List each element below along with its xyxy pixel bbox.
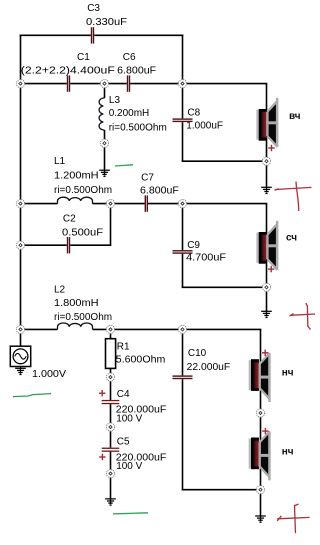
speaker nch upper	[249, 353, 271, 402]
node junction C4-C5	[106, 423, 114, 431]
wire C9 branch above	[182, 204, 184, 251]
svg-text:нч: нч	[282, 446, 294, 457]
capacitor C1	[67, 75, 70, 91]
svg-text:1.000V: 1.000V	[32, 369, 66, 380]
wire top rail right of C3	[94, 34, 183, 36]
wire sch speaker column	[266, 204, 268, 288]
wire sch bottom row	[182, 286, 267, 288]
capacitor C2	[67, 237, 70, 253]
node junction left rail row3	[16, 200, 24, 208]
wire row3 L1 to C7	[93, 203, 145, 205]
ground below C5	[105, 499, 116, 505]
node junction L3 top	[100, 80, 108, 88]
wire nch ground stem	[260, 490, 262, 516]
node junction C5 bottom	[106, 469, 114, 477]
node junction R1-C4	[106, 373, 114, 381]
node junction left rail row2	[16, 80, 24, 88]
svg-text:4.700uF: 4.700uF	[186, 253, 226, 264]
svg-text:C3: C3	[87, 3, 100, 14]
node junction vch speaker bottom	[262, 157, 270, 165]
wire left rail	[20, 35, 22, 347]
wire junction to ground	[110, 474, 112, 499]
resistor R1	[106, 339, 116, 369]
ground below nch speakers	[255, 516, 266, 522]
node junction C2 branch top	[106, 200, 114, 208]
wire row2 C1 to C6	[70, 83, 127, 85]
node junction left rail C2 row	[16, 241, 24, 249]
capacitor C4 electrolytic	[102, 400, 120, 404]
nch lower polarity plus	[262, 428, 268, 434]
wire C4 to junction	[110, 404, 112, 427]
svg-text:6.800uF: 6.800uF	[140, 185, 179, 196]
sch polarity plus	[268, 266, 274, 272]
wire vch bottom row	[182, 160, 267, 162]
svg-text:5.600Ohm: 5.600Ohm	[116, 355, 166, 366]
speaker nch lower	[249, 431, 271, 480]
nch upper polarity plus	[262, 350, 268, 356]
wire row3 left segment	[21, 203, 58, 205]
svg-text:0.500uF: 0.500uF	[62, 227, 103, 238]
svg-text:0.330uF: 0.330uF	[86, 17, 127, 28]
wire nch bottom row	[182, 489, 261, 491]
source V1	[10, 346, 30, 366]
svg-text:22.000uF: 22.000uF	[187, 362, 231, 373]
svg-text:L3: L3	[109, 95, 121, 106]
svg-text:(2.2+2.2)4.400uF: (2.2+2.2)4.400uF	[21, 66, 115, 77]
node junction nch bottom	[256, 486, 264, 494]
ground below L3	[99, 170, 110, 176]
svg-text:6.800uF: 6.800uF	[117, 66, 156, 77]
wire C2 branch vertical	[110, 204, 112, 246]
wire C9 branch below	[182, 254, 184, 288]
svg-text:вч: вч	[289, 111, 301, 122]
wire L3 coil to junction	[104, 130, 106, 143]
speaker vch	[256, 98, 278, 147]
svg-text:0.200mH: 0.200mH	[109, 108, 150, 119]
svg-text:1.000uF: 1.000uF	[186, 121, 223, 132]
capacitor C7	[145, 195, 148, 211]
svg-text:1.800mH: 1.800mH	[54, 298, 99, 309]
svg-text:C6: C6	[123, 52, 136, 63]
wire nch speaker column	[260, 329, 262, 489]
node junction C10 branch top	[178, 325, 186, 333]
red cross near vch ground	[275, 182, 312, 212]
speaker sch	[256, 221, 278, 270]
C4 polarity plus	[99, 390, 105, 396]
wire top rail left of C3	[20, 34, 91, 36]
svg-text:ri=0.500Ohm: ri=0.500Ohm	[54, 312, 112, 323]
svg-text:C10: C10	[188, 348, 207, 359]
svg-text:сч: сч	[286, 233, 297, 244]
wire row2 left of C1	[21, 83, 67, 85]
capacitor C10	[173, 375, 193, 379]
wire L3 branch top	[104, 84, 106, 98]
wire L2 row right segment	[93, 328, 262, 330]
green mark below C5 ground	[113, 513, 148, 514]
capacitor C9	[173, 250, 193, 254]
wire mid vertical above C8	[182, 35, 184, 119]
svg-text:ri=0.500Ohm: ri=0.500Ohm	[109, 122, 167, 133]
capacitor C3	[91, 27, 94, 43]
node junction R1 top	[106, 325, 114, 333]
svg-text:C1: C1	[77, 52, 90, 63]
svg-text:ri=0.500Ohm: ri=0.500Ohm	[54, 185, 112, 196]
C5 polarity plus	[99, 454, 105, 460]
wire junction to C4	[110, 377, 112, 400]
wire row2 C6 to speaker column	[130, 83, 267, 85]
wire C2 row right segment	[70, 244, 111, 246]
vch polarity plus	[268, 145, 274, 151]
wire vch ground stem	[266, 161, 268, 187]
inductor L2 coil	[58, 323, 93, 329]
wire L3 junction to ground	[104, 143, 106, 170]
wire R1 to junction	[110, 368, 112, 377]
node junction C8 branch top	[178, 80, 186, 88]
ground below vch speaker	[261, 187, 272, 193]
svg-text:C2: C2	[63, 214, 76, 225]
svg-text:C5: C5	[117, 436, 130, 447]
inductor L3 coil	[99, 98, 104, 130]
wire C10 branch below	[182, 379, 184, 490]
svg-text:1.200mH: 1.200mH	[54, 171, 99, 182]
node junction L3 bottom	[100, 139, 108, 147]
wire R1 branch top	[110, 329, 112, 338]
wire sch ground stem	[266, 287, 268, 311]
red cross near nch ground	[277, 504, 309, 533]
svg-text:L1: L1	[54, 156, 66, 167]
svg-text:100 V: 100 V	[116, 461, 142, 472]
wire row3 C7 to corner	[148, 203, 267, 205]
svg-text:C7: C7	[141, 173, 154, 184]
wire mid vertical below C8	[182, 122, 184, 161]
svg-text:R1: R1	[117, 341, 130, 352]
inductor L1 coil	[58, 197, 93, 203]
svg-text:100 V: 100 V	[116, 414, 142, 425]
red cross near sch ground	[290, 303, 315, 330]
node junction C9 branch top	[178, 200, 186, 208]
node junction left rail L2 row	[16, 325, 24, 333]
svg-text:L2: L2	[54, 285, 66, 296]
wire L2 row left segment	[21, 328, 58, 330]
capacitor C8	[173, 118, 193, 122]
node junction sch speaker bottom	[262, 283, 270, 291]
wire C5 to junction	[110, 452, 112, 474]
wire vch speaker column	[266, 84, 268, 162]
svg-text:нч: нч	[282, 368, 294, 379]
green mark below source	[13, 394, 51, 397]
ground below sch speaker	[261, 311, 272, 317]
source ground	[15, 368, 26, 374]
wire C10 branch above	[182, 329, 184, 375]
capacitor C6	[127, 75, 130, 91]
node junction between nch speakers	[256, 409, 264, 417]
capacitor C5 electrolytic	[102, 448, 120, 452]
green mark near L3 ground	[115, 165, 133, 166]
svg-text:C9: C9	[187, 240, 200, 251]
svg-text:C8: C8	[187, 107, 200, 118]
svg-text:C4: C4	[117, 389, 130, 400]
wire C2 row	[21, 244, 67, 246]
wire junction to C5	[110, 427, 112, 448]
